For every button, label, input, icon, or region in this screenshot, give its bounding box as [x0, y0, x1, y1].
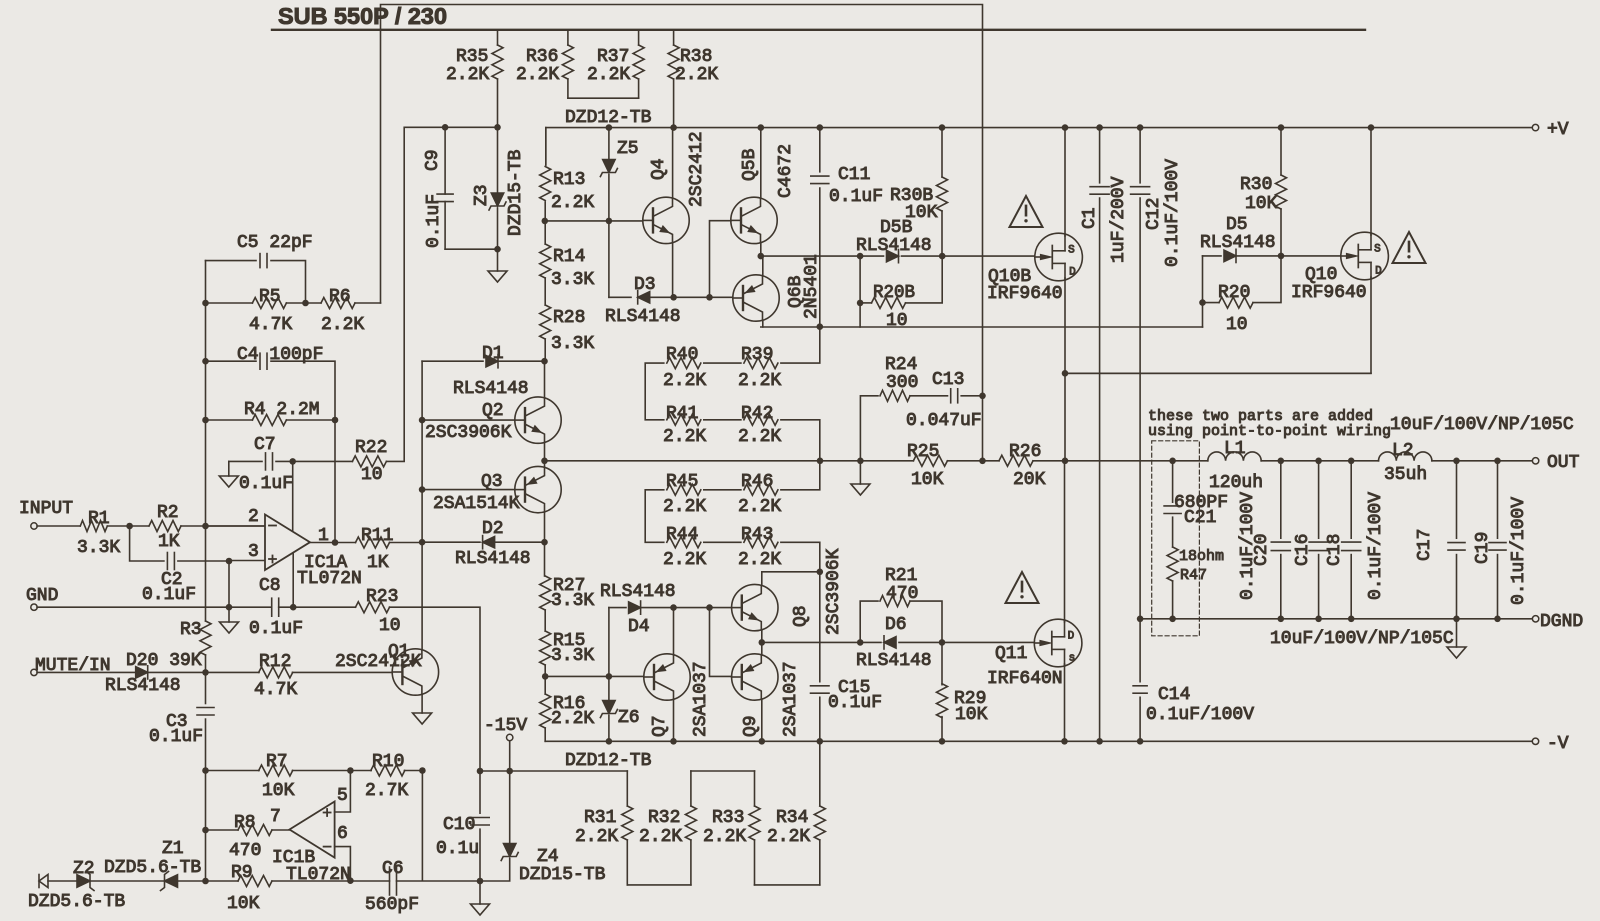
svg-text:R34: R34 [776, 808, 808, 828]
label Q4 [649, 158, 669, 180]
wire IC1A V+ stub [292, 461, 294, 532]
junction C11 bottom [817, 323, 824, 330]
junction Q8 base bracket [706, 604, 713, 611]
junction C9 top [442, 124, 449, 131]
svg-text:10: 10 [361, 465, 383, 485]
resistor R20B [857, 256, 942, 308]
wire +input to opamp [229, 560, 265, 562]
junction D2 right [541, 539, 548, 546]
note line 2 [1148, 423, 1391, 440]
svg-text:470: 470 [886, 584, 918, 604]
wire IC1B pin5 wire [335, 771, 351, 813]
svg-text:D: D [1375, 266, 1382, 278]
svg-text:RLS4148: RLS4148 [600, 582, 676, 602]
svg-text:R36: R36 [526, 47, 558, 67]
label R46 value [738, 497, 781, 517]
label R39 [741, 345, 773, 365]
label R35 [446, 47, 489, 85]
wire upper gate drive [761, 255, 1034, 257]
svg-text:R25: R25 [907, 442, 939, 462]
label C7 [254, 435, 276, 455]
svg-text:120uh: 120uh [1209, 473, 1263, 493]
diode D5 [1203, 249, 1282, 262]
capacitor C2 [130, 526, 229, 570]
label R9 value [227, 894, 260, 914]
svg-text:3.3K: 3.3K [551, 270, 594, 290]
wire R24 bracket to ground [859, 461, 861, 484]
svg-text:R46: R46 [741, 472, 773, 492]
svg-text:2SC2412: 2SC2412 [687, 131, 707, 207]
junction Z6 bottom [606, 738, 613, 745]
capacitor C6 [350, 867, 480, 895]
label R37 [587, 47, 630, 85]
label R32 [648, 808, 680, 828]
label C1 value [1109, 176, 1129, 263]
label R8 [234, 813, 256, 833]
svg-text:C9: C9 [423, 149, 443, 171]
label Z1 type [104, 858, 201, 878]
label C8 value [249, 619, 303, 639]
junction D5B anode [857, 253, 864, 260]
label Z2 type [28, 892, 125, 912]
label C14 value [1146, 705, 1254, 725]
junction R2 right (inverting node) [202, 523, 209, 530]
label R12 value [254, 680, 297, 700]
label Z1 [162, 839, 184, 859]
label R7 value [262, 781, 295, 801]
label R15 [553, 631, 585, 651]
svg-text:R31: R31 [584, 808, 616, 828]
resistor R30B [937, 128, 948, 257]
junction R5/R6 [302, 300, 309, 307]
svg-text:0.1uF/100V: 0.1uF/100V [1146, 705, 1254, 725]
wire left column R4-R2 [205, 420, 207, 526]
label R24 value [886, 373, 918, 393]
label R16 value [551, 709, 594, 729]
label 10uF bottom [1270, 629, 1454, 649]
wire left column top [205, 261, 207, 303]
svg-text:2.2K: 2.2K [738, 497, 781, 517]
capacitor C13 [951, 389, 983, 403]
label DGND [1540, 612, 1583, 632]
label R11 [361, 526, 393, 546]
svg-text:R47: R47 [1180, 567, 1207, 584]
svg-text:IRF9640: IRF9640 [1291, 283, 1367, 303]
junction C18 top [1348, 458, 1355, 465]
label R20B value [886, 311, 908, 331]
label R12 [259, 652, 291, 672]
svg-text:-15V: -15V [484, 716, 527, 736]
label R16 [553, 694, 585, 714]
ground below DGND rail [1447, 619, 1466, 658]
wire D4 to Q8 base [674, 607, 732, 609]
label IC1A [304, 553, 347, 573]
label R43 value [738, 550, 781, 570]
svg-text:Q4: Q4 [649, 158, 669, 180]
svg-text:Z3: Z3 [472, 184, 492, 206]
label IC1B [272, 848, 315, 868]
svg-text:Q7: Q7 [650, 715, 670, 737]
svg-text:R14: R14 [553, 247, 585, 267]
label Z4 type [519, 865, 606, 885]
svg-text:C18: C18 [1325, 534, 1345, 566]
svg-text:using point-to-point wiring: using point-to-point wiring [1148, 423, 1391, 440]
svg-text:RLS4148: RLS4148 [453, 379, 529, 399]
svg-text:10K: 10K [905, 203, 938, 223]
svg-text:10: 10 [1226, 315, 1248, 335]
svg-text:5: 5 [337, 786, 348, 806]
label R15 value [551, 646, 594, 666]
svg-text:2.2K: 2.2K [738, 427, 781, 447]
junction -15V terminal stub [506, 768, 513, 775]
svg-text:Q10: Q10 [1305, 265, 1337, 285]
resistor R21 [860, 596, 942, 643]
diode D4 [609, 601, 674, 614]
junction Z3 bottom [494, 246, 501, 253]
diode D6 [884, 636, 896, 649]
resistor R32 [685, 771, 696, 885]
op-amp IC1B [290, 802, 335, 858]
svg-text:R41: R41 [666, 404, 698, 424]
wire Z5 to D3 [608, 221, 610, 297]
capacitor C10 [471, 771, 489, 881]
svg-text:10K: 10K [1245, 194, 1278, 214]
diode D3 [609, 291, 674, 304]
junction R7/R10/pin5 [347, 767, 354, 774]
wire L2 to OUT terminal [1432, 460, 1533, 462]
svg-text:10K: 10K [911, 470, 944, 490]
resistor R37 [633, 31, 644, 98]
label R30 [1240, 175, 1272, 195]
capacitor C21 [1164, 461, 1181, 547]
resistor R30 [1276, 128, 1287, 256]
junction C14 bottom [1137, 738, 1144, 745]
label C20 value [1238, 492, 1258, 600]
wire R15/R16 to Q7 base [545, 675, 645, 677]
label C13 [932, 370, 964, 390]
ground below Q1 [413, 713, 432, 724]
diode D2 [422, 536, 544, 549]
junction R9 left [202, 878, 209, 885]
svg-text:Z1: Z1 [162, 839, 184, 859]
resistor R34 [814, 741, 825, 885]
junction D5 cathode/R30 [1278, 253, 1285, 260]
wire R32/R33 top bracket [691, 770, 755, 772]
junction Q10B source [1062, 124, 1069, 131]
svg-text:DZD12-TB: DZD12-TB [565, 751, 652, 771]
label C6 value [365, 895, 419, 915]
svg-text:300: 300 [886, 373, 918, 393]
transistor Q9 [732, 642, 778, 741]
junction R42/R46 bracket [817, 458, 824, 465]
label DZD12-TB (Z5) [565, 108, 652, 128]
label C10 [443, 815, 475, 835]
junction C1 bottom [1096, 738, 1103, 745]
terminal +V [1532, 124, 1538, 130]
label C17 [1415, 529, 1435, 561]
svg-text:Q5B: Q5B [740, 148, 760, 181]
junction Q2 base [419, 417, 426, 424]
svg-text:R37: R37 [597, 47, 629, 67]
resistor R5 [206, 298, 306, 309]
svg-text:C1: C1 [1080, 207, 1100, 229]
junction R1/R2 [126, 523, 133, 530]
junction Q11 source rail [1061, 738, 1068, 745]
svg-text:C11: C11 [838, 165, 870, 185]
label Q10B [988, 267, 1031, 287]
svg-text:7: 7 [270, 807, 281, 827]
transistor Q5B [731, 128, 777, 257]
svg-text:2.2K: 2.2K [738, 371, 781, 391]
label C12 value [1163, 159, 1183, 267]
wire D4 bracket [608, 608, 610, 677]
junction D2 left [419, 539, 426, 546]
junction R4 left [202, 417, 209, 424]
wire R20 left bracket [1202, 303, 1204, 327]
capacitor C5 [206, 254, 306, 303]
svg-text:10: 10 [886, 311, 908, 331]
junction C18 bottom [1348, 616, 1355, 623]
label R6 [329, 287, 351, 307]
label C18 value [1366, 492, 1386, 600]
capacitor C3 [197, 672, 214, 770]
svg-text:C10: C10 [443, 815, 475, 835]
wire IC1A V- stub [292, 554, 294, 607]
svg-text:s: s [1069, 653, 1076, 665]
label C1 [1080, 207, 1100, 229]
svg-text:D6: D6 [885, 615, 907, 635]
label R1 value [77, 538, 120, 558]
svg-text:C19: C19 [1473, 532, 1493, 564]
ground below R24/R25 [851, 484, 870, 495]
svg-text:Z2: Z2 [73, 859, 95, 879]
svg-text:0.1uF: 0.1uF [828, 693, 882, 713]
label 10uF top [1390, 415, 1574, 435]
junction C21 top [1169, 458, 1176, 465]
label R1 [88, 509, 110, 529]
svg-text:R12: R12 [259, 652, 291, 672]
wire R4 right to IC1A out [334, 420, 336, 543]
junction Q9 collector rail [759, 738, 766, 745]
resistor R14 [540, 221, 551, 305]
resistor R2 [130, 521, 265, 532]
capacitor C18 [1342, 461, 1361, 619]
svg-text:2.2K: 2.2K [587, 65, 630, 85]
label R36 [516, 47, 559, 85]
svg-text:10K: 10K [955, 705, 988, 725]
svg-text:D: D [1069, 267, 1076, 279]
svg-text:INPUT: INPUT [19, 499, 73, 519]
capacitor C9 [437, 127, 453, 249]
svg-text:D20 39K: D20 39K [126, 651, 202, 671]
label R46 [741, 472, 773, 492]
ground below C10 [471, 904, 490, 915]
wire drain bus [1065, 372, 1371, 374]
label R2 value [158, 532, 180, 552]
svg-text:0.1uF: 0.1uF [829, 187, 883, 207]
svg-text:R6: R6 [329, 287, 351, 307]
junction Q2/Q3 output node [541, 458, 548, 465]
svg-text:R44: R44 [666, 525, 698, 545]
label R30 value [1245, 194, 1278, 214]
wire Q10B drain to OUT [1064, 373, 1066, 461]
svg-text:4.7K: 4.7K [254, 680, 297, 700]
svg-text:R9: R9 [231, 863, 253, 883]
resistor R12 [206, 667, 393, 678]
svg-text:R24: R24 [885, 355, 917, 375]
junction C1 top [1096, 124, 1103, 131]
svg-text:DZD5.6-TB: DZD5.6-TB [28, 892, 125, 912]
svg-text:TL072N: TL072N [286, 865, 351, 885]
junction Q10B drain/OUT [1062, 458, 1069, 465]
dashed box point-to-point parts [1152, 441, 1200, 636]
svg-text:0.1uF: 0.1uF [239, 474, 293, 494]
label Q11 [995, 644, 1027, 664]
svg-text:R21: R21 [885, 566, 917, 586]
svg-text:2.2K: 2.2K [767, 827, 810, 847]
junction C20 bottom [1278, 616, 1285, 623]
resistor R46 [744, 461, 820, 496]
svg-text:Z5: Z5 [617, 139, 639, 159]
svg-text:3.3K: 3.3K [551, 646, 594, 666]
label IC1B pin5 [337, 786, 348, 806]
wire lower gate drive [762, 641, 1037, 643]
svg-text:C14: C14 [1158, 685, 1190, 705]
svg-text:R35: R35 [456, 47, 488, 67]
svg-text:R39: R39 [741, 345, 773, 365]
svg-text:R13: R13 [553, 170, 585, 190]
label R3 [180, 620, 202, 640]
label L2 value [1384, 465, 1427, 485]
label R40 value [663, 371, 706, 391]
svg-text:S: S [1374, 244, 1381, 256]
label D2 [482, 519, 504, 539]
svg-text:2.2K: 2.2K [675, 65, 718, 85]
junction -15V node [477, 768, 484, 775]
svg-text:1uF/200V: 1uF/200V [1109, 176, 1129, 263]
resistor R3 [200, 526, 211, 672]
svg-text:3.3K: 3.3K [551, 591, 594, 611]
label R38 [675, 47, 718, 85]
terminal MUTE [31, 669, 37, 675]
svg-text:IRF9640: IRF9640 [987, 284, 1063, 304]
resistor R41 [667, 414, 741, 425]
resistor R40 [667, 358, 741, 369]
svg-text:C13: C13 [932, 370, 964, 390]
label L1 value [1209, 473, 1263, 493]
svg-text:RLS4148: RLS4148 [455, 549, 531, 569]
svg-text:R4 2.2M: R4 2.2M [244, 400, 320, 420]
resistor R24 [860, 390, 947, 461]
op-amp IC1A [206, 515, 311, 571]
label MUTE/IN [35, 656, 111, 676]
label D4 [628, 617, 650, 637]
wire R31/R32 bottom bracket [627, 884, 691, 886]
label R29 value [955, 705, 988, 725]
junction R8 left [202, 827, 209, 834]
note line 1 [1148, 408, 1373, 425]
label C14 [1158, 685, 1190, 705]
label R9 [231, 863, 253, 883]
label R34 [776, 808, 808, 828]
label L2 [1392, 441, 1414, 461]
label IC1A pin1 [318, 526, 329, 546]
junction +input ground [226, 604, 233, 611]
svg-text:D4: D4 [628, 617, 650, 637]
svg-text:R45: R45 [666, 472, 698, 492]
junction C8 right / V- pin [290, 604, 297, 611]
label C8 [259, 576, 281, 596]
label R20B [873, 283, 915, 303]
label C7 value [239, 474, 293, 494]
label R42 [741, 404, 773, 424]
resistor R9 [206, 876, 351, 887]
label R11 value [367, 553, 389, 573]
junction D6 cathode [857, 639, 864, 646]
svg-text:2.2K: 2.2K [575, 827, 618, 847]
svg-text:560pF: 560pF [365, 895, 419, 915]
svg-text:RLS4148: RLS4148 [856, 651, 932, 671]
svg-text:R20: R20 [1218, 283, 1250, 303]
svg-text:2SC3906K: 2SC3906K [425, 423, 512, 443]
svg-text:R1: R1 [88, 509, 110, 529]
wire R30-Q10 gate [1281, 255, 1340, 257]
label Z4 [537, 847, 559, 867]
svg-text:D5: D5 [1226, 215, 1248, 235]
resistor R36 [562, 31, 573, 98]
junction Q5B/Q6B emitters [758, 253, 765, 260]
svg-text:C17: C17 [1415, 529, 1435, 561]
resistor R35 [492, 31, 503, 127]
inductor L2 [1379, 452, 1432, 461]
svg-text:C5 22pF: C5 22pF [237, 233, 313, 253]
svg-text:2.2K: 2.2K [516, 65, 559, 85]
label R41 [666, 404, 698, 424]
svg-text:GND: GND [26, 586, 58, 606]
wire R40/R41 left bracket [645, 363, 664, 420]
resistor R13 [540, 128, 551, 221]
resistor R4 [206, 415, 336, 426]
wire Q5B base bracket [710, 221, 732, 298]
svg-text:0.1uF/100V: 0.1uF/100V [1163, 159, 1183, 267]
label D20 [126, 651, 202, 671]
svg-text:Z4: Z4 [537, 847, 559, 867]
label R45 [666, 472, 698, 492]
label DZD12-TB (Z6) [565, 751, 652, 771]
transistor Q6B [733, 256, 779, 327]
label R34 value [767, 827, 810, 847]
label R4 [244, 400, 320, 420]
junction R43 bracket / Q8 collector [817, 569, 824, 576]
terminal INPUT [31, 523, 37, 529]
svg-text:C4 100pF: C4 100pF [237, 345, 323, 365]
resistor R28 [540, 305, 551, 361]
label R33 [712, 808, 744, 828]
label D2 type [455, 549, 531, 569]
label -15V [484, 716, 527, 736]
label IC1A pin2 [248, 507, 259, 527]
zener Z5 [600, 128, 617, 221]
label D5B type [856, 236, 932, 256]
resistor R10 [350, 765, 422, 776]
svg-text:3.3K: 3.3K [551, 334, 594, 354]
junction R22/C7/V+ node [289, 458, 296, 465]
junction Q8/Q9 emitters [759, 639, 766, 646]
wire +15V rail segment [404, 127, 497, 461]
svg-text:RLS4148: RLS4148 [1200, 233, 1276, 253]
capacitor C12 [1131, 128, 1150, 619]
label Z5 [617, 139, 639, 159]
